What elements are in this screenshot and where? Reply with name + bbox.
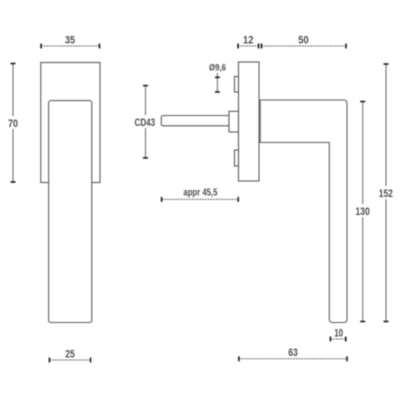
dim 12 <box>238 45 259 47</box>
side view: bottom screw boss <box>235 150 239 166</box>
dim CD43 <box>145 85 147 158</box>
dim appr 45,5 <box>162 198 239 200</box>
svg-text:50: 50 <box>298 35 308 47</box>
svg-text:63: 63 <box>288 347 298 359</box>
front view: plate <box>41 63 100 183</box>
svg-text:appr 45,5: appr 45,5 <box>183 187 217 199</box>
front view: handle grip <box>49 101 92 323</box>
side view: handle (L shape) <box>260 100 347 323</box>
svg-text:130: 130 <box>355 206 370 218</box>
dim 35 <box>41 45 100 47</box>
dim 63 <box>239 358 347 360</box>
side view: top screw boss <box>235 77 239 93</box>
svg-text:12: 12 <box>243 35 253 47</box>
svg-text:10: 10 <box>334 327 343 339</box>
svg-text:Ø9,6: Ø9,6 <box>209 63 226 74</box>
svg-text:25: 25 <box>65 348 75 360</box>
side view: spindle <box>161 116 229 126</box>
svg-text:CD43: CD43 <box>135 117 156 129</box>
svg-text:152: 152 <box>379 188 393 200</box>
side view: plate <box>239 62 260 181</box>
dim 10 <box>330 338 345 340</box>
svg-text:70: 70 <box>8 118 18 130</box>
dim 130 <box>362 101 364 322</box>
dim 152 <box>385 64 387 323</box>
side view: spindle hub <box>229 111 239 132</box>
svg-text:35: 35 <box>65 35 75 47</box>
dim 50 <box>262 45 347 47</box>
dim 25 <box>49 359 90 361</box>
dim 70 <box>12 63 14 183</box>
